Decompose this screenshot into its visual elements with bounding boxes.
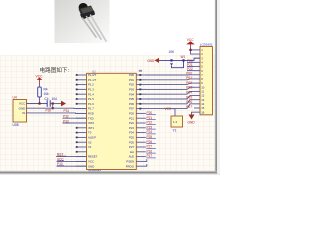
- svg-text:P30: P30: [46, 108, 52, 112]
- svg-text:GND: GND: [147, 59, 155, 63]
- svg-text:U08: U08: [13, 123, 19, 127]
- wire U4 pin3 to MCU: [30, 112, 87, 115]
- svg-text:X1: X1: [88, 145, 92, 149]
- net label LCD pin5: [187, 63, 194, 67]
- svg-text:W1: W1: [181, 55, 186, 59]
- svg-text:1 2: 1 2: [173, 120, 178, 124]
- svg-text:TXD: TXD: [88, 116, 94, 120]
- svg-text:P04: P04: [129, 92, 134, 96]
- svg-text:P04: P04: [186, 91, 192, 95]
- component body small: [171, 116, 183, 127]
- net label P2.3: [146, 125, 156, 129]
- svg-text:Y1: Y1: [173, 129, 177, 133]
- svg-text:ALE/P: ALE/P: [88, 136, 96, 140]
- svg-text:P1.7: P1.7: [88, 107, 94, 111]
- component U4 IR receiver module: [13, 100, 27, 123]
- svg-text:P21: P21: [129, 116, 134, 120]
- wire P0.4 to LCD pin11: [146, 91, 195, 94]
- svg-text:P1.3: P1.3: [88, 88, 94, 92]
- wire C4 to triangle port: [50, 103, 61, 105]
- svg-text:P26: P26: [129, 140, 134, 144]
- svg-text:P1.2: P1.2: [88, 83, 94, 87]
- left pin tips: [76, 74, 78, 153]
- svg-text:P01: P01: [186, 76, 192, 80]
- net label P2.4: [146, 130, 156, 134]
- window bottom border: [0, 170, 217, 173]
- svg-text:LCD1602: LCD1602: [200, 43, 213, 47]
- svg-text:T0: T0: [88, 131, 92, 135]
- net label P2.6: [146, 140, 156, 144]
- svg-text:X2: X2: [88, 140, 92, 144]
- svg-text:P24: P24: [129, 131, 134, 135]
- MCU left pin names: [88, 73, 98, 168]
- wire P0.1 to LCD pin8: [146, 78, 195, 81]
- power port GND left of pot: [147, 58, 159, 63]
- wire node B down: [52, 104, 54, 109]
- resistor R4: [38, 87, 49, 97]
- wire INT0: [63, 117, 87, 119]
- junction dots pot: [170, 59, 172, 61]
- svg-text:P1.6: P1.6: [88, 102, 94, 106]
- wire U4 pin1 to C4: [27, 103, 48, 105]
- wire GND bottom-left: [57, 165, 87, 167]
- net label P2.0: [146, 111, 156, 115]
- wire VCC bottom-left: [57, 160, 87, 162]
- svg-text:P22: P22: [129, 121, 134, 125]
- svg-text:U4: U4: [13, 96, 17, 100]
- svg-text:RESET: RESET: [88, 155, 98, 159]
- svg-text:P03: P03: [186, 86, 192, 90]
- right pin tips on bus rows: [139, 74, 141, 109]
- wire INT1: [63, 122, 87, 124]
- net label P2.1: [146, 116, 156, 120]
- svg-text:P05: P05: [129, 97, 134, 101]
- svg-text:RXD: RXD: [88, 112, 94, 116]
- svg-text:VCC: VCC: [88, 160, 94, 164]
- wire VCC-R4: [39, 84, 41, 87]
- wire U4 pin2 to MCU: [30, 107, 87, 109]
- power port VCC above R4: [36, 75, 44, 85]
- power port VCC above LCD: [187, 38, 194, 47]
- svg-text:P01: P01: [129, 78, 134, 82]
- wire RESET: [56, 156, 87, 158]
- MCU right pin stubs: [136, 75, 146, 166]
- wire P0.5 to LCD pin12: [146, 96, 195, 99]
- wire R4 to node A: [39, 97, 41, 104]
- capacitor C4: [45, 97, 58, 107]
- wire VCC to LCD pin2: [191, 47, 195, 54]
- schematic sheet: [0, 55, 216, 172]
- wire P0.0 to LCD pin7: [146, 74, 195, 76]
- svg-text:P33: P33: [63, 119, 69, 123]
- junction LCD pin1: [189, 49, 191, 51]
- net label RESET: [57, 153, 66, 157]
- svg-text:16: 16: [201, 110, 205, 114]
- svg-text:PROG: PROG: [126, 164, 134, 168]
- svg-text:P07: P07: [186, 105, 192, 109]
- wire GND to LCD pin3: [159, 58, 200, 60]
- stub hook row20: [146, 164, 147, 166]
- junction node B: [52, 102, 54, 104]
- svg-text:C4: C4: [45, 97, 49, 101]
- wire P0.6 to LCD pin13: [146, 100, 195, 104]
- net label P2.7: [146, 145, 156, 149]
- svg-text:P1.4: P1.4: [88, 92, 94, 96]
- net label P10: [57, 162, 64, 166]
- svg-text:VCC: VCC: [19, 102, 26, 106]
- svg-text:104: 104: [52, 97, 58, 101]
- svg-text:P31: P31: [64, 109, 70, 113]
- MCU U2 body: [87, 73, 137, 169]
- svg-text:P07: P07: [129, 107, 134, 111]
- svg-text:INT0: INT0: [88, 121, 95, 125]
- svg-text:P00: P00: [186, 71, 192, 75]
- svg-text:P1.5: P1.5: [88, 97, 94, 101]
- svg-text:P03: P03: [129, 88, 134, 92]
- svg-text:P02: P02: [129, 83, 134, 87]
- MCU left pin stubs: [76, 75, 87, 166]
- page background: [0, 0, 220, 175]
- wire P0.3 to LCD pin10: [146, 87, 195, 89]
- stub hook row19: [146, 159, 147, 161]
- power port GND below LCD: [188, 115, 196, 125]
- svg-text:P23: P23: [147, 125, 153, 129]
- LCD pin numbers: [201, 48, 205, 114]
- svg-text:P05: P05: [186, 95, 192, 99]
- LCD body: [200, 47, 213, 115]
- net label LCD pin4: [187, 59, 194, 63]
- svg-text:10K: 10K: [169, 50, 176, 54]
- svg-text:ALE: ALE: [129, 155, 134, 159]
- svg-text:P20: P20: [129, 112, 134, 116]
- svg-text:PSEN: PSEN: [126, 160, 134, 164]
- net label P2.2: [146, 121, 156, 125]
- wire to LCD pin1: [191, 49, 195, 51]
- potentiometer W1: [169, 50, 186, 68]
- MCU right pin names: [126, 73, 135, 168]
- U4 pin stubs: [27, 104, 31, 113]
- svg-text:VCC: VCC: [165, 107, 172, 111]
- wire P0.2 to LCD pin9: [146, 83, 195, 85]
- svg-text:INT1: INT1: [88, 126, 95, 130]
- marker above pin P0.0: [139, 70, 142, 72]
- svg-text:P16: P16: [147, 149, 153, 153]
- svg-text:电路图如下:: 电路图如下:: [40, 66, 70, 74]
- svg-text:EA: EA: [130, 150, 134, 154]
- net label VCC: [57, 157, 64, 161]
- wire VCC to component: [172, 109, 176, 116]
- junction node A: [38, 102, 40, 104]
- svg-text:P32: P32: [63, 115, 69, 119]
- svg-text:GND: GND: [188, 120, 196, 124]
- photo of IR receiver component: [55, 0, 110, 43]
- svg-text:P02: P02: [186, 81, 192, 85]
- svg-text:IN: IN: [22, 111, 25, 115]
- svg-text:P25: P25: [129, 136, 134, 140]
- svg-text:GND: GND: [19, 106, 27, 110]
- svg-text:R4: R4: [44, 88, 48, 92]
- net label LCD pin6: [187, 67, 194, 71]
- net label P16: [146, 149, 156, 153]
- svg-text:GND: GND: [88, 164, 94, 168]
- svg-text:P23: P23: [129, 126, 134, 130]
- svg-text:P06: P06: [129, 102, 134, 106]
- wire P0.7 to LCD pin14: [146, 104, 195, 109]
- net label P2.5: [146, 135, 156, 139]
- svg-text:P27: P27: [129, 145, 134, 149]
- net label P17: [146, 154, 156, 158]
- svg-text:10k: 10k: [44, 92, 50, 96]
- LCD pin stubs: [194, 50, 200, 112]
- svg-text:P1.1/T: P1.1/T: [88, 78, 97, 82]
- port arrow IR out: [61, 101, 66, 107]
- wire LCD pin16 to GND: [192, 112, 195, 114]
- svg-text:P1.0/T: P1.0/T: [88, 73, 97, 77]
- window right border: [214, 0, 217, 175]
- svg-text:P00: P00: [129, 73, 134, 77]
